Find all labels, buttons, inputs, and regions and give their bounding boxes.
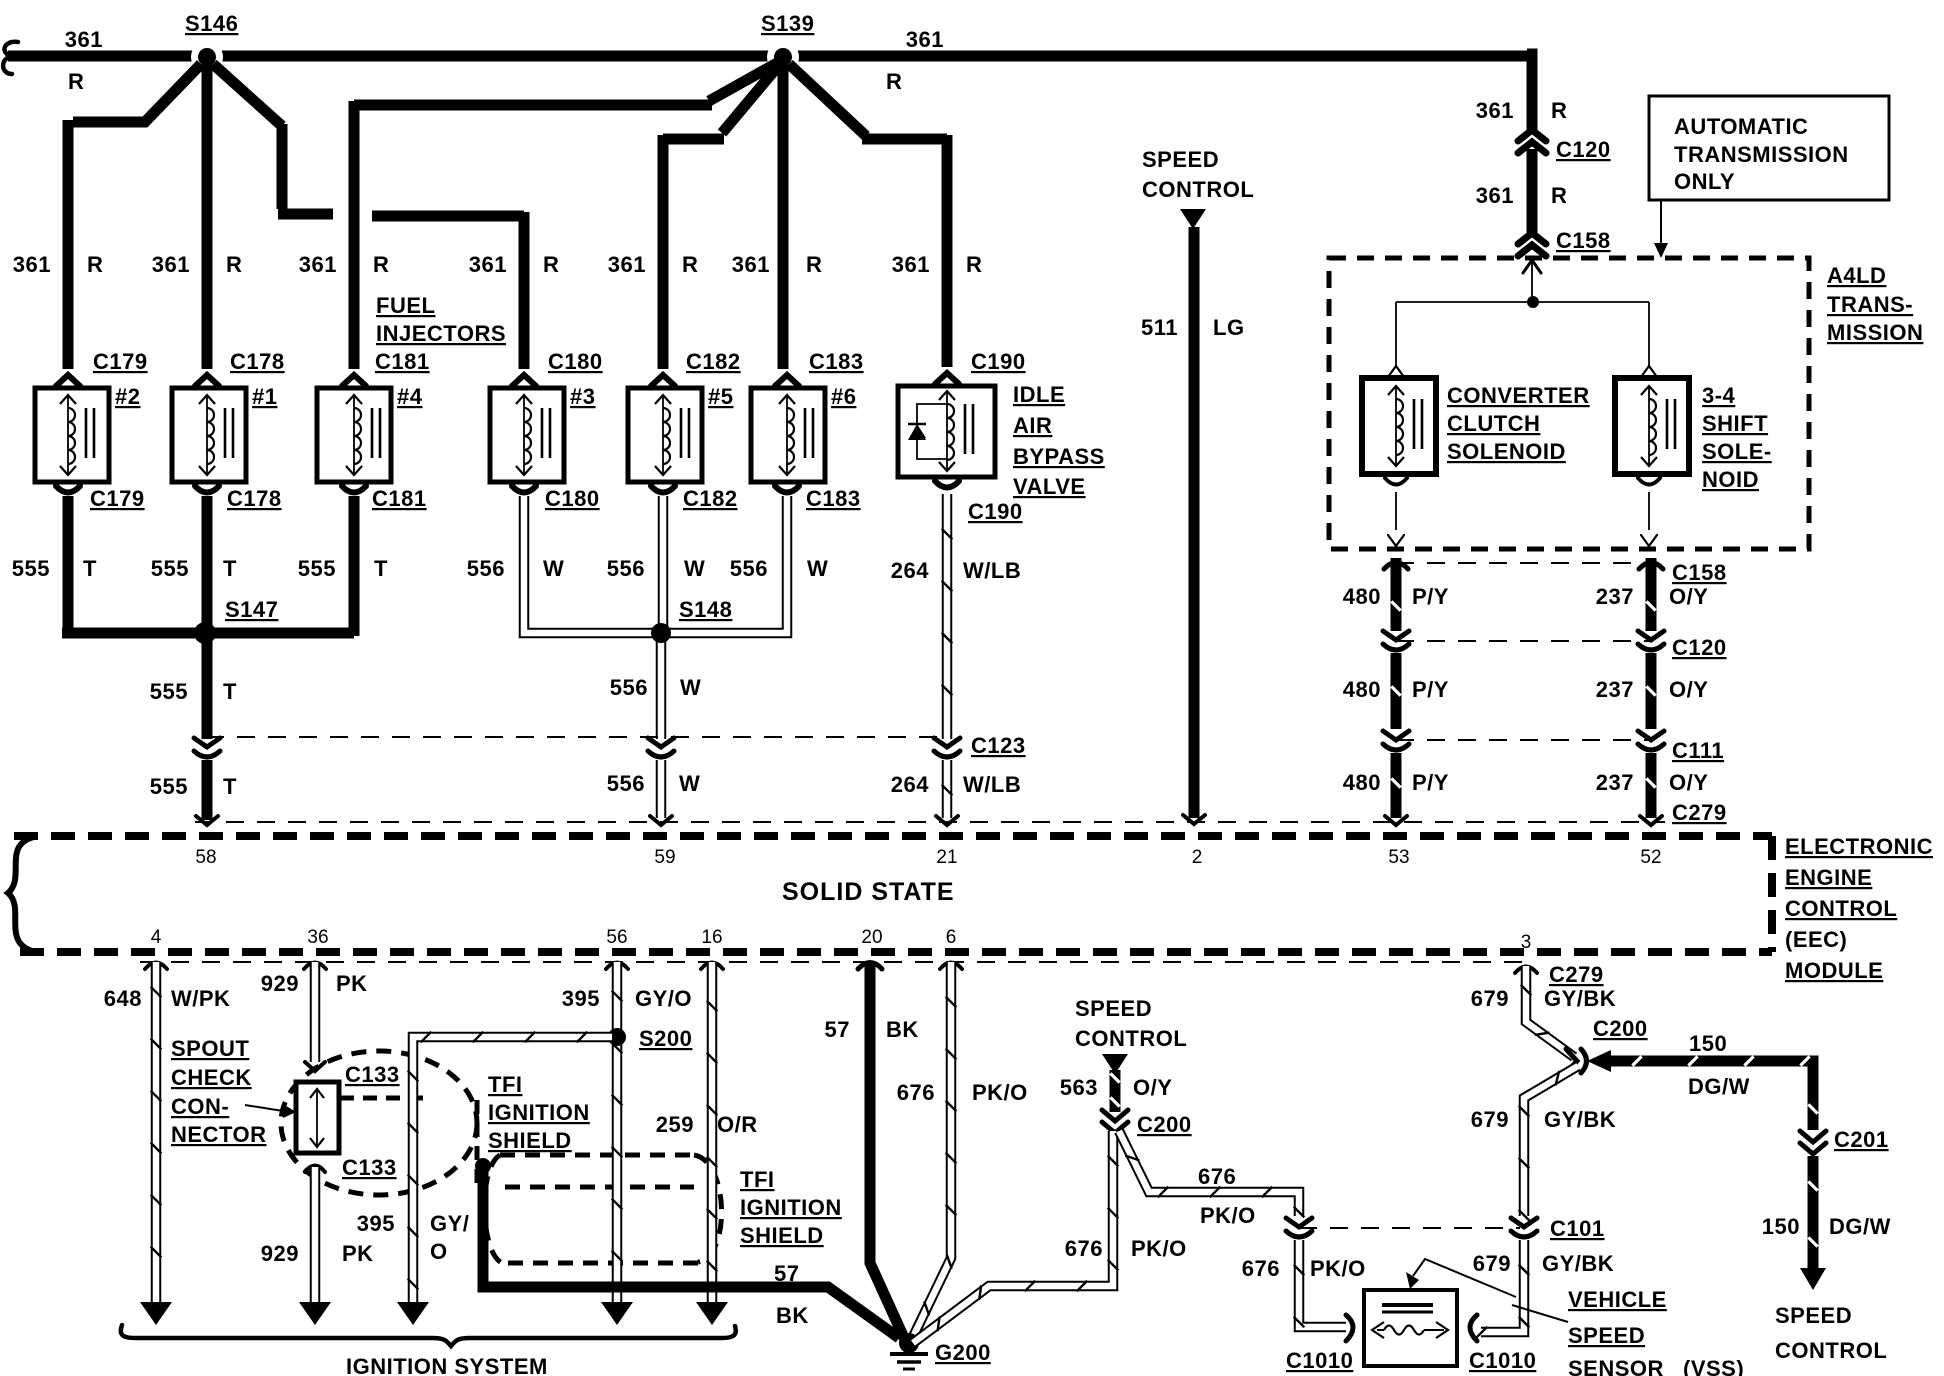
svg-text:INJECTORS: INJECTORS <box>376 321 506 346</box>
wire 555 T bus S147 <box>62 628 354 639</box>
svg-text:511: 511 <box>1141 315 1178 340</box>
svg-text:676: 676 <box>1242 1256 1280 1281</box>
svg-text:CONTROL: CONTROL <box>1785 896 1897 921</box>
connector C178 bottom label <box>227 486 282 511</box>
label 361 (right of S139) <box>906 27 944 52</box>
svg-text:929: 929 <box>261 971 299 996</box>
fuel injector #2 bottom cup <box>56 486 80 493</box>
svg-text:W: W <box>684 556 705 581</box>
connector C183 bottom label <box>806 486 861 511</box>
svg-text:3: 3 <box>1521 932 1532 953</box>
svg-text:237: 237 <box>1596 584 1634 609</box>
svg-text:52: 52 <box>1640 847 1661 868</box>
svg-text:NOID: NOID <box>1702 467 1759 492</box>
wire 679 GY/BK lower <box>1477 1240 1530 1337</box>
connector C111 on 480 <box>1383 731 1409 750</box>
wire 555 T from injector #2 <box>63 496 74 628</box>
svg-text:IDLE: IDLE <box>1013 382 1065 407</box>
svg-text:C279: C279 <box>1549 962 1604 987</box>
svg-text:O/Y: O/Y <box>1669 770 1708 795</box>
svg-text:PK: PK <box>342 1241 374 1266</box>
wire 929 PK below C133 <box>310 1167 321 1302</box>
label 679 GY/BK middle <box>1471 1107 1616 1132</box>
label 3-4 SHIFT SOLENOID <box>1702 383 1772 492</box>
wire 511 LG to EEC pin 2 <box>1183 227 1205 824</box>
label C1010 right <box>1469 1348 1536 1373</box>
svg-text:C178: C178 <box>230 349 285 374</box>
svg-text:O/R: O/R <box>717 1112 758 1137</box>
connector C1010 left <box>1346 1315 1353 1341</box>
connector C179 top label <box>93 349 148 374</box>
TFI ignition shield 1 dashed oval <box>281 1051 477 1195</box>
connector C133 top cup <box>305 1062 325 1071</box>
label 361 R at C120 <box>1476 98 1568 123</box>
svg-text:53: 53 <box>1388 847 1409 868</box>
svg-text:2: 2 <box>1192 847 1203 868</box>
svg-text:679: 679 <box>1471 1107 1509 1132</box>
svg-text:PK/O: PK/O <box>972 1080 1028 1105</box>
svg-text:PK/O: PK/O <box>1200 1203 1256 1228</box>
svg-text:GY/O: GY/O <box>635 986 692 1011</box>
wire 676 PK/O to ground <box>913 1131 1118 1343</box>
svg-text:C182: C182 <box>683 486 738 511</box>
svg-text:C180: C180 <box>545 486 600 511</box>
label 511 LG <box>1141 315 1245 340</box>
connector C182 top label <box>686 349 741 374</box>
svg-text:W/LB: W/LB <box>963 772 1021 797</box>
label CONVERTER CLUTCH SOLENOID <box>1447 383 1590 464</box>
label C158 right <box>1672 560 1727 585</box>
label SPEED CONTROL (top) <box>1142 147 1254 202</box>
svg-text:361: 361 <box>732 252 770 277</box>
svg-text:S147: S147 <box>225 597 278 622</box>
fuel injector #4 connector top flare <box>342 375 366 386</box>
svg-text:C200: C200 <box>1137 1112 1192 1137</box>
svg-text:O/Y: O/Y <box>1669 677 1708 702</box>
fuel injector #3 (C180) <box>490 388 564 482</box>
pin 36 <box>307 927 328 948</box>
wire 237 O/Y segment 1 <box>1639 558 1663 631</box>
label 361 R feed x=787 <box>732 252 823 277</box>
wire 361 R main bus <box>3 42 1532 74</box>
svg-text:555: 555 <box>151 556 189 581</box>
svg-text:O/Y: O/Y <box>1133 1075 1172 1100</box>
connector line C120 <box>1396 640 1651 642</box>
svg-text:VEHICLE: VEHICLE <box>1568 1287 1667 1312</box>
wire 555 T from injector #1 to C123 <box>202 496 213 739</box>
svg-text:648: 648 <box>104 986 142 1011</box>
wire 395 GY/O branch left <box>408 1032 612 1302</box>
wire 150 DG/W <box>1607 1056 1818 1268</box>
ignition system arrow 648 <box>140 1302 172 1325</box>
label 555 T mid <box>150 679 237 704</box>
fuel injector #4 bottom cup <box>342 486 366 493</box>
label C123 <box>971 733 1026 758</box>
label S146 <box>185 11 238 36</box>
svg-text:C183: C183 <box>809 349 864 374</box>
label 480 P/Y row 3 <box>1343 770 1449 795</box>
svg-text:C120: C120 <box>1672 635 1727 660</box>
EEC module border bottom <box>20 948 1772 956</box>
idle air bypass valve top flare <box>935 373 959 384</box>
svg-text:C120: C120 <box>1556 137 1611 162</box>
wire 237 O/Y segment 2 <box>1646 653 1655 729</box>
pin 2 <box>1192 847 1203 868</box>
label SPEED CONTROL (mid) <box>1075 996 1187 1051</box>
splice S148 <box>651 623 671 643</box>
svg-text:LG: LG <box>1213 315 1245 340</box>
pin 53 <box>1388 847 1409 868</box>
svg-text:SPEED: SPEED <box>1075 996 1152 1021</box>
wire 361 R to injector #4 <box>354 63 777 369</box>
svg-text:CON-: CON- <box>171 1094 229 1119</box>
wire 361 R to injector #2 <box>68 64 201 369</box>
svg-text:237: 237 <box>1596 677 1634 702</box>
connector C120 on 237 <box>1638 631 1664 650</box>
svg-text:T: T <box>83 556 97 581</box>
label 555 T low <box>150 774 237 799</box>
label 555 T upper #1 <box>151 556 237 581</box>
svg-text:S148: S148 <box>679 597 732 622</box>
label 929 PK upper <box>261 971 368 996</box>
label 237 O/Y row 1 <box>1596 584 1709 609</box>
svg-text:FUEL: FUEL <box>376 293 435 318</box>
svg-text:C190: C190 <box>971 349 1026 374</box>
svg-text:(EEC): (EEC) <box>1785 927 1847 952</box>
connector C158 on 361 feed <box>1518 233 1546 256</box>
svg-text:6: 6 <box>946 927 957 948</box>
svg-text:361: 361 <box>1476 183 1514 208</box>
svg-text:C182: C182 <box>686 349 741 374</box>
svg-text:150: 150 <box>1689 1031 1727 1056</box>
svg-text:3-4: 3-4 <box>1702 383 1736 408</box>
connector C111 on 237 <box>1638 731 1664 750</box>
svg-text:16: 16 <box>701 927 722 948</box>
label 361 R feed x=947 <box>892 252 983 277</box>
connector C133 bottom cup <box>305 1166 325 1173</box>
ignition system brace <box>121 1325 736 1346</box>
svg-text:CONTROL: CONTROL <box>1142 177 1254 202</box>
label R (right of S139) <box>886 69 902 94</box>
wire 361 R to idle air bypass valve <box>789 64 947 367</box>
wire 361 R to injector #5 <box>663 65 779 369</box>
svg-text:IGNITION: IGNITION <box>488 1100 590 1125</box>
svg-text:BK: BK <box>776 1303 809 1328</box>
label 556 W upper #3 <box>467 556 564 581</box>
label 676 PK/O left <box>1065 1236 1187 1261</box>
svg-text:361: 361 <box>892 252 930 277</box>
pin 52 <box>1640 847 1661 868</box>
wire 361 R to injector #6 <box>778 60 789 369</box>
svg-text:259: 259 <box>656 1112 694 1137</box>
label C133 bottom <box>342 1155 397 1180</box>
svg-text:(VSS): (VSS) <box>1683 1356 1744 1376</box>
label 480 P/Y row 1 <box>1343 584 1449 609</box>
svg-text:R: R <box>68 69 84 94</box>
svg-text:C158: C158 <box>1556 228 1611 253</box>
label 480 P/Y row 2 <box>1343 677 1449 702</box>
svg-text:GY/BK: GY/BK <box>1544 1107 1616 1132</box>
svg-text:361: 361 <box>906 27 944 52</box>
label 264 W/LB upper <box>891 558 1021 583</box>
svg-text:480: 480 <box>1343 584 1381 609</box>
svg-text:SHIFT: SHIFT <box>1702 411 1768 436</box>
svg-text:555: 555 <box>12 556 50 581</box>
label S200 <box>639 1026 692 1051</box>
svg-text:#2: #2 <box>115 384 140 409</box>
label 237 O/Y row 3 <box>1596 770 1709 795</box>
svg-text:56: 56 <box>606 927 627 948</box>
label C201 <box>1834 1127 1889 1152</box>
svg-text:C123: C123 <box>971 733 1026 758</box>
fuel injector #6 connector top flare <box>775 375 799 386</box>
3-4 shift solenoid <box>1615 378 1689 474</box>
svg-text:R: R <box>886 69 902 94</box>
connector C200 right chevrons <box>1566 1049 1587 1073</box>
label 361 R feed x=663 <box>608 252 699 277</box>
svg-text:#6: #6 <box>831 384 856 409</box>
svg-text:T: T <box>223 556 237 581</box>
svg-text:556: 556 <box>607 771 645 796</box>
connector C101 on 679 <box>1511 1218 1537 1237</box>
svg-text:BYPASS: BYPASS <box>1013 444 1105 469</box>
converter clutch solenoid bottom cup <box>1385 478 1407 546</box>
svg-text:237: 237 <box>1596 770 1634 795</box>
svg-text:556: 556 <box>730 556 768 581</box>
wire 555 T from injector #4 <box>349 496 360 636</box>
label SOLID STATE <box>782 878 955 906</box>
svg-text:TFI: TFI <box>740 1167 775 1192</box>
svg-text:P/Y: P/Y <box>1412 677 1449 702</box>
wire 264 W/LB to EEC pin 21 <box>936 760 958 825</box>
label 679 GY/BK upper <box>1471 986 1616 1011</box>
wire 556 W from S148 to C123 <box>656 640 667 739</box>
svg-text:#4: #4 <box>397 384 423 409</box>
svg-text:DG/W: DG/W <box>1688 1074 1750 1099</box>
connector C181 bottom label <box>372 486 427 511</box>
wire 259 O/R from pin 16 <box>701 962 723 1302</box>
svg-text:#1: #1 <box>252 384 277 409</box>
svg-text:C179: C179 <box>93 349 148 374</box>
vehicle speed sensor box <box>1364 1290 1457 1366</box>
svg-text:361: 361 <box>13 252 51 277</box>
svg-text:W: W <box>543 556 564 581</box>
label C279 right <box>1672 800 1727 825</box>
wire 480 P/Y segment 3 <box>1385 753 1407 825</box>
svg-text:555: 555 <box>298 556 336 581</box>
wire 676 PK/O to VSS <box>1119 1131 1346 1327</box>
fuel injector #2 (C179) <box>35 388 109 482</box>
fuel injector #5 bottom cup <box>651 486 675 493</box>
connector C190 bottom label <box>968 499 1023 524</box>
label FUEL INJECTORS <box>376 293 506 346</box>
wire 395 GY/O from pin 56 <box>606 962 628 1302</box>
svg-text:MODULE: MODULE <box>1785 958 1883 983</box>
wire to shift solenoid <box>1641 302 1657 377</box>
svg-text:TFI: TFI <box>488 1072 523 1097</box>
svg-text:R: R <box>1551 98 1567 123</box>
svg-text:SPOUT: SPOUT <box>171 1036 249 1061</box>
connector C181 top label <box>375 349 430 374</box>
svg-text:R: R <box>966 252 982 277</box>
svg-text:679: 679 <box>1471 986 1509 1011</box>
svg-text:679: 679 <box>1473 1251 1511 1276</box>
svg-text:C158: C158 <box>1672 560 1727 585</box>
label 555 T upper #4 <box>298 556 388 581</box>
label #6 <box>831 384 856 409</box>
label #3 <box>570 384 595 409</box>
connector C200 left <box>1102 1110 1128 1133</box>
ignition system arrow 395 <box>601 1302 633 1325</box>
wire 237 O/Y segment 3 <box>1640 753 1662 825</box>
connector C180 bottom label <box>545 486 600 511</box>
svg-text:R: R <box>226 252 242 277</box>
svg-text:361: 361 <box>152 252 190 277</box>
svg-text:P/Y: P/Y <box>1412 770 1449 795</box>
wire 480 P/Y segment 2 <box>1391 653 1400 729</box>
label C158 <box>1556 228 1611 253</box>
splice S147 <box>194 622 216 644</box>
svg-text:58: 58 <box>195 847 216 868</box>
connector C123 on 555 <box>194 738 220 757</box>
connector C183 top label <box>809 349 864 374</box>
label #1 <box>252 384 277 409</box>
svg-text:S146: S146 <box>185 11 238 36</box>
label 555 T upper #2 <box>12 556 97 581</box>
label PK/O below <box>1200 1203 1256 1228</box>
svg-text:CLUTCH: CLUTCH <box>1447 411 1540 436</box>
connector line C158 <box>1396 562 1651 564</box>
wire 57 BK from pin 20 <box>858 962 905 1340</box>
svg-text:CONTROL: CONTROL <box>1775 1338 1887 1363</box>
label #2 <box>115 384 140 409</box>
svg-text:AIR: AIR <box>1013 413 1052 438</box>
svg-text:264: 264 <box>891 772 929 797</box>
label 676 PK/O right <box>1242 1256 1366 1281</box>
label S147 <box>225 597 278 622</box>
pin 16 <box>701 927 722 948</box>
connector C180 top label <box>548 349 603 374</box>
svg-text:W: W <box>680 675 701 700</box>
svg-text:361: 361 <box>608 252 646 277</box>
TFI ignition shield 2 dashed cylinder <box>484 1155 721 1263</box>
svg-text:T: T <box>223 679 237 704</box>
svg-text:361: 361 <box>299 252 337 277</box>
svg-text:C111: C111 <box>1672 738 1724 763</box>
label 237 O/Y row 2 <box>1596 677 1709 702</box>
svg-text:NECTOR: NECTOR <box>171 1122 267 1147</box>
label C279 bottom <box>1549 962 1604 987</box>
svg-text:ELECTRONIC: ELECTRONIC <box>1785 834 1933 859</box>
fuel injector #1 connector top flare <box>195 375 219 386</box>
idle air bypass valve (C190) <box>898 386 995 477</box>
EEC module left brace <box>8 837 36 952</box>
fuel injector #3 bottom cup <box>512 486 536 493</box>
wire 929 PK from pin 36 <box>304 962 326 1062</box>
svg-text:S139: S139 <box>761 11 814 36</box>
pin 6 <box>946 927 957 948</box>
label C120 <box>1556 137 1611 162</box>
svg-text:SOLID STATE: SOLID STATE <box>782 878 955 906</box>
label 361 R feed x=524 <box>469 252 560 277</box>
wire 361 R to injector #1 <box>202 60 213 369</box>
fuel injector #6 (C183) <box>751 388 825 482</box>
connector line C111 <box>1396 739 1651 741</box>
connector C182 bottom label <box>683 486 738 511</box>
svg-text:S200: S200 <box>639 1026 692 1051</box>
svg-text:264: 264 <box>891 558 929 583</box>
svg-text:SPEED: SPEED <box>1568 1323 1645 1348</box>
leader line to C1010 <box>1512 1305 1568 1322</box>
svg-text:ONLY: ONLY <box>1674 169 1735 194</box>
svg-text:20: 20 <box>861 927 882 948</box>
svg-text:#3: #3 <box>570 384 595 409</box>
pin 59 <box>654 847 675 868</box>
label 361 R feed x=68 <box>13 252 104 277</box>
wire 555 T to EEC pin 58 <box>196 760 218 825</box>
svg-text:C133: C133 <box>345 1062 400 1087</box>
svg-text:SPEED: SPEED <box>1142 147 1219 172</box>
connector C120 on 361 feed <box>1518 130 1546 153</box>
svg-text:A4LD: A4LD <box>1827 263 1886 288</box>
fuel injector #2 connector top flare <box>56 375 80 386</box>
wire 150 DG/W arrowhead <box>1587 1050 1611 1072</box>
svg-text:563: 563 <box>1060 1075 1098 1100</box>
speed control source triangle 2 <box>1102 1054 1128 1074</box>
label #5 <box>708 384 733 409</box>
label G200 <box>935 1340 991 1365</box>
wire to converter clutch solenoid <box>1388 302 1404 377</box>
speed control source triangle <box>1180 209 1206 229</box>
label SPOUT CHECK CONNECTOR <box>171 1036 267 1147</box>
label 556 W mid <box>610 675 701 700</box>
svg-text:SOLENOID: SOLENOID <box>1447 439 1566 464</box>
label R (left of S146) <box>68 69 84 94</box>
svg-text:C179: C179 <box>90 486 145 511</box>
svg-text:555: 555 <box>150 679 188 704</box>
label C101 <box>1550 1216 1605 1241</box>
svg-text:T: T <box>223 774 237 799</box>
label 556 W low <box>607 771 700 796</box>
fuel injector #4 (C181) <box>317 388 391 482</box>
svg-text:395: 395 <box>357 1211 395 1236</box>
label S139 <box>761 11 814 36</box>
label 264 W/LB low <box>891 772 1021 797</box>
note box AUTOMATIC TRANSMISSION ONLY <box>1649 96 1889 200</box>
pin 56 <box>606 927 627 948</box>
svg-text:SENSOR: SENSOR <box>1568 1356 1664 1376</box>
label 395 GY/O at S200 <box>562 986 692 1011</box>
wire 556 W from injector #5 <box>658 496 669 628</box>
label 676 PK/O pin 6 <box>897 1080 1028 1105</box>
svg-text:676: 676 <box>1065 1236 1103 1261</box>
label 676 above <box>1198 1164 1236 1189</box>
wire 264 W/LB from valve to C123 <box>942 494 953 739</box>
fuel injector #1 (C178) <box>172 388 246 482</box>
label 361 R feed x=207 <box>152 252 243 277</box>
svg-text:MISSION: MISSION <box>1827 320 1923 345</box>
label 679 GY/BK lower <box>1473 1251 1614 1276</box>
connector C101 on 676 <box>1286 1218 1312 1237</box>
EEC module border right <box>1768 836 1776 952</box>
wire 556 W from injector #6 <box>668 496 787 633</box>
svg-text:ENGINE: ENGINE <box>1785 865 1872 890</box>
svg-text:C200: C200 <box>1593 1016 1648 1041</box>
svg-text:676: 676 <box>1198 1164 1236 1189</box>
svg-text:150: 150 <box>1762 1214 1800 1239</box>
svg-text:PK: PK <box>336 971 368 996</box>
label ELECTRONIC ENGINE CONTROL (EEC) MODULE <box>1785 834 1933 983</box>
